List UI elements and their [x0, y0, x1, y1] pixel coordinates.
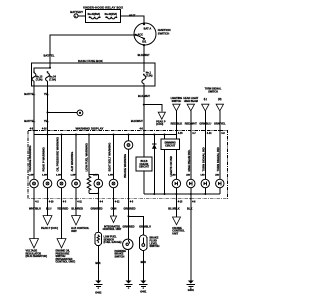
svg-text:(R): (R)	[218, 98, 222, 101]
head light connector arrow	[183, 97, 198, 179]
svg-text:YEL/RED: YEL/RED	[57, 207, 68, 211]
wire battery to relay box	[78, 15, 86, 17]
connector eyelet	[77, 110, 83, 116]
svg-text:No.31(50A): No.31(50A)	[88, 13, 101, 16]
svg-text:G401: G401	[140, 291, 147, 294]
fuse No.1 (7.5A)	[142, 72, 153, 84]
svg-text:UNIT: UNIT	[71, 230, 77, 233]
svg-text:UNIT: UNIT	[172, 232, 178, 235]
svg-text:TURN SIGNAL IND: TURN SIGNAL IND	[202, 147, 206, 171]
wire col8 BLK/WHT ignition feed down	[131, 84, 151, 157]
svg-text:GRN/RED: GRN/RED	[123, 225, 135, 229]
svg-text:SWITCH: SWITCH	[150, 245, 160, 248]
svg-text:BAT/YEL: BAT/YEL	[24, 92, 35, 96]
svg-text:4-12: 4-12	[115, 200, 120, 203]
svg-text:UNDER-HOOD RELAY BOX: UNDER-HOOD RELAY BOX	[83, 5, 123, 9]
svg-text:SWITCH: SWITCH	[158, 32, 169, 36]
svg-text:LED: LED	[172, 175, 177, 177]
svg-text:4-13: 4-13	[178, 200, 183, 203]
svg-text:G402: G402	[95, 292, 102, 295]
common cathode wire	[144, 193, 220, 195]
svg-text:SWITCH: SWITCH	[115, 255, 125, 258]
brake warning lamp column	[123, 135, 133, 240]
svg-text:BLK/WHT: BLK/WHT	[131, 119, 143, 123]
svg-text:BLK: BLK	[187, 207, 192, 211]
svg-text:GRN/BLU: GRN/BLU	[199, 122, 211, 126]
svg-text:(7.5A): (7.5A)	[49, 78, 56, 81]
svg-text:DASH FUSE BOX: DASH FUSE BOX	[78, 59, 103, 63]
dash fuse box	[32, 59, 156, 86]
svg-text:OIL PRESSURE WARNING: OIL PRESSURE WARNING	[56, 137, 60, 171]
svg-text:BLK/WHT: BLK/WHT	[138, 94, 150, 98]
svg-text:BLK: BLK	[141, 260, 146, 264]
svg-text:(L): (L)	[204, 98, 207, 101]
svg-text:CIRCUIT: CIRCUIT	[165, 145, 176, 148]
branch to peak connector	[143, 104, 162, 112]
lighting switch connector arrow	[171, 97, 183, 139]
ground G401 indicator common	[187, 281, 195, 293]
ignition switch	[134, 23, 171, 46]
svg-text:BAT/YEL: BAT/YEL	[44, 54, 55, 58]
svg-text:BRAKE WARNING: BRAKE WARNING	[123, 154, 127, 178]
svg-text:LED: LED	[215, 175, 220, 177]
svg-text:1.4W: 1.4W	[56, 174, 61, 177]
svg-text:BATTERY: BATTERY	[70, 10, 83, 14]
svg-text:YEL: YEL	[44, 119, 49, 123]
svg-text:LIGHTS ON IND: LIGHTS ON IND	[169, 156, 173, 176]
turn signal switch connector arrow L	[199, 98, 211, 180]
brake fluid level switch	[139, 235, 159, 281]
oil pressure warning lamp column	[56, 135, 66, 239]
svg-text:4-10: 4-10	[49, 200, 54, 203]
svg-text:ORN: ORN	[111, 207, 117, 211]
wire col2 YEL fuse to lamp	[44, 81, 49, 179]
svg-text:BLU: BLU	[46, 207, 51, 211]
svg-text:4-11: 4-11	[77, 200, 82, 203]
parking brake switch	[115, 239, 134, 280]
fuse No.13 (7.5A)	[32, 71, 43, 81]
under-hood relay box	[83, 5, 123, 22]
svg-text:No.32(15A): No.32(15A)	[105, 13, 118, 16]
svg-text:BLK: BLK	[95, 261, 100, 265]
wire relay box to ignition switch, WHT	[121, 13, 144, 23]
bottom wire labels	[29, 188, 192, 239]
svg-text:BLK/WHT: BLK/WHT	[138, 53, 150, 57]
svg-text:IG1: IG1	[142, 39, 147, 43]
svg-text:(CCU): (CCU)	[156, 123, 163, 126]
high beam indicator LED column	[187, 149, 195, 280]
branch wire to connector	[47, 111, 78, 113]
node pins top boundary	[30, 128, 226, 135]
connector arrow cruise control unit	[172, 217, 185, 235]
svg-text:PEAK P WARNING: PEAK P WARNING	[42, 147, 46, 171]
svg-text:(IN ALTERNATOR): (IN ALTERNATOR)	[26, 255, 48, 258]
svg-text:HIGH BEAM: HIGH BEAM	[184, 100, 198, 103]
fuse No.32 (15A)	[105, 13, 118, 19]
wire ignition bottom down BLK/WHT	[143, 45, 145, 72]
charge warning lamp column	[28, 146, 38, 188]
node pins bottom boundary	[33, 198, 196, 204]
svg-text:SEAT BELT WARNING: SEAT BELT WARNING	[108, 143, 112, 172]
svg-text:GRN/RED: GRN/RED	[91, 207, 103, 211]
ground parking brake	[124, 281, 132, 289]
svg-text:PEAK P (CCU): PEAK P (CCU)	[41, 227, 58, 230]
svg-text:WARNING DISPLAY: WARNING DISPLAY	[76, 126, 104, 130]
svg-text:(7.5A): (7.5A)	[36, 78, 43, 81]
svg-text:RED/BLK: RED/BLK	[171, 122, 183, 126]
turn signal switch connector arrow R	[205, 87, 226, 179]
svg-text:LED: LED	[201, 175, 206, 177]
branch parking brake to brake fluid	[123, 215, 152, 235]
wire ignition IG1 to dash fuse box feed	[50, 35, 136, 63]
svg-text:1.4W: 1.4W	[71, 174, 76, 177]
wire col1 BAT/YEL fuse to lamp	[24, 81, 35, 179]
svg-text:1.4W: 1.4W	[42, 174, 47, 177]
warning display unit dashed box	[28, 126, 228, 198]
svg-text:CONTROL UNIT): CONTROL UNIT)	[56, 261, 76, 264]
turn signal indicator LED column R	[216, 147, 224, 194]
svg-text:1.4W: 1.4W	[93, 174, 98, 177]
fuse No.24 (7.5A)	[46, 71, 57, 81]
bus wire	[34, 134, 176, 136]
ground G402 fuel	[94, 281, 102, 295]
diode column	[152, 135, 157, 195]
low fuel sensor	[95, 232, 122, 280]
svg-text:TURN SIGNAL IND: TURN SIGNAL IND	[216, 147, 220, 171]
peak warning lamp column	[42, 147, 52, 188]
connector arrow peak p ccu	[41, 216, 58, 231]
svg-text:BLU/RED: BLU/RED	[71, 207, 83, 211]
svg-text:GRN/YEL: GRN/YEL	[214, 122, 226, 126]
svg-text:(7.5A): (7.5A)	[146, 74, 153, 77]
ground G401 brake fluid	[139, 281, 147, 294]
svg-text:HIGH BEAM IND.: HIGH BEAM IND.	[187, 149, 191, 171]
battery BAT	[70, 10, 83, 18]
svg-text:RED/WHT: RED/WHT	[185, 122, 198, 126]
dimming circuit box	[161, 135, 180, 195]
connector arrow oil pressure switch	[56, 239, 76, 264]
svg-text:4-15: 4-15	[178, 132, 183, 135]
svg-text:CHARGE WARNING: CHARGE WARNING	[28, 146, 32, 172]
svg-text:(FUEL GAUGE): (FUEL GAUGE)	[104, 241, 122, 244]
internal link wire	[34, 63, 51, 71]
bulb check circuit box	[136, 135, 152, 195]
ALB warning lamp column	[70, 135, 80, 216]
seat belt warning lamp column	[108, 135, 118, 217]
svg-text:CONTROL UNIT: CONTROL UNIT	[103, 228, 122, 231]
svg-text:YEL: YEL	[44, 92, 49, 96]
svg-text:LOW FUEL WARNING: LOW FUEL WARNING	[85, 143, 89, 171]
lights on indicator LED column	[169, 150, 181, 218]
bulb value labels	[29, 174, 220, 177]
svg-text:ACC: ACC	[137, 33, 143, 37]
connector arrow integrated control unit	[103, 216, 122, 231]
svg-text:G401: G401	[188, 289, 195, 292]
svg-text:BLU/BLK: BLU/BLK	[168, 207, 180, 211]
connector arrow alb control unit	[71, 216, 90, 233]
low fuel warning lamp column with resistor	[85, 135, 103, 233]
svg-text:GRN/RED: GRN/RED	[124, 207, 136, 211]
svg-text:BAT A: BAT A	[144, 27, 152, 31]
fuse No.31 (50A)	[88, 13, 101, 19]
svg-text:4-16: 4-16	[42, 128, 47, 131]
svg-text:ALB WARNING: ALB WARNING	[70, 152, 74, 172]
svg-text:CIRCUIT: CIRCUIT	[139, 166, 150, 169]
turn signal indicator LED column L	[201, 147, 209, 194]
svg-text:1.4W: 1.4W	[29, 174, 34, 177]
svg-text:GRN/BLU: GRN/BLU	[139, 225, 151, 229]
svg-text:1.4W: 1.4W	[108, 174, 113, 177]
svg-text:LED: LED	[186, 175, 191, 177]
svg-text:4-14: 4-14	[207, 132, 212, 135]
svg-text:BAT/YEL: BAT/YEL	[24, 119, 35, 123]
svg-text:SWITCH: SWITCH	[172, 100, 182, 103]
connector arrow voltage regulator	[26, 239, 48, 259]
svg-text:WHT/BLU: WHT/BLU	[29, 207, 41, 211]
svg-text:WHT: WHT	[129, 13, 136, 17]
svg-text:SWITCH: SWITCH	[208, 91, 218, 94]
connector arrow PEAK P	[156, 112, 166, 126]
